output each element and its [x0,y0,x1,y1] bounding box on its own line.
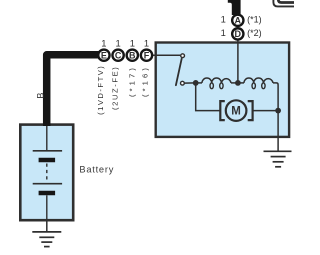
svg-text:B: B [35,93,45,99]
svg-text:(2UZ-FE): (2UZ-FE) [110,66,119,110]
svg-text:1: 1 [101,38,106,49]
svg-text:A: A [235,16,242,26]
svg-text:1: 1 [130,38,135,49]
svg-text:1: 1 [221,14,226,25]
svg-text:(*16): (*16) [141,65,150,97]
svg-text:(*1): (*1) [247,15,262,25]
svg-text:E: E [101,50,107,60]
svg-text:F: F [144,50,150,60]
svg-text:(*17): (*17) [127,65,136,97]
svg-text:D: D [235,29,242,39]
svg-text:1: 1 [115,38,120,49]
svg-text:M: M [231,106,241,118]
svg-text:(1VD-FTV): (1VD-FTV) [96,65,105,115]
svg-text:1: 1 [221,27,226,38]
svg-text:C: C [115,50,122,60]
svg-text:1: 1 [144,38,149,49]
svg-text:B: B [129,50,136,60]
svg-text:Battery: Battery [79,164,114,174]
svg-text:(*2): (*2) [247,28,262,38]
